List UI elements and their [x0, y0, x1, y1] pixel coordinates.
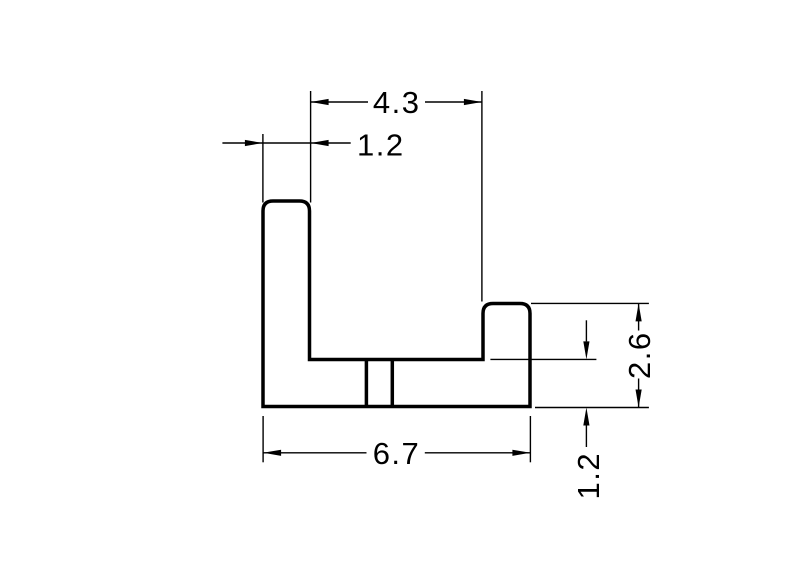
dimension 6.7 extension line right: [529, 416, 531, 462]
dimension 4.3 extension line right: [481, 91, 483, 302]
dimension 2.6 extension line bottom: [535, 407, 649, 409]
dimension 1.2 right line top segment: [585, 320, 587, 341]
svg-text:1.2: 1.2: [357, 127, 405, 162]
dimension 1.2 top arrow right: [311, 140, 329, 146]
dimension 2.6 arrow top: [636, 303, 642, 321]
dimension 6.7 line left segment: [263, 452, 366, 454]
dimension 4.3 line left segment: [311, 101, 368, 103]
dimension 1.2 right extension line middle: [490, 358, 596, 360]
dimension 4.3 line right segment: [425, 101, 482, 103]
svg-text:4.3: 4.3: [373, 85, 421, 120]
dimension 1.2 right arrow bottom: [583, 408, 589, 426]
dimension 1.2 top line: [222, 142, 350, 144]
dimension 4.3 arrow right: [464, 99, 482, 105]
dimension 4.3 arrow left: [311, 99, 329, 105]
dimension 6.7 extension line left: [262, 416, 264, 462]
dimension 1.2 right arrow top: [583, 341, 589, 359]
dimension 1.2 right line bottom segment: [585, 426, 587, 448]
slot line left: [365, 360, 369, 407]
slot line right: [391, 360, 395, 407]
dimension 2.6 line top segment: [638, 303, 640, 330]
dimension 6.7 arrow left: [263, 450, 281, 456]
dimension 4.3 extension line left: [310, 91, 312, 203]
dimension 2.6 line bottom segment: [638, 379, 640, 408]
svg-text:6.7: 6.7: [373, 436, 421, 471]
svg-text:1.2: 1.2: [571, 452, 606, 500]
dimension 1.2 top arrow left: [245, 140, 263, 146]
dimension 6.7 line right segment: [425, 452, 531, 454]
dimension 6.7 arrow right: [512, 450, 530, 456]
dimension 2.6 extension line top: [531, 302, 649, 304]
profile outline (extrusion cross-section): [263, 201, 530, 407]
svg-text:2.6: 2.6: [622, 331, 657, 379]
dimension 2.6 arrow bottom: [636, 390, 642, 408]
dimension 1.2 top extension line left: [262, 134, 264, 203]
